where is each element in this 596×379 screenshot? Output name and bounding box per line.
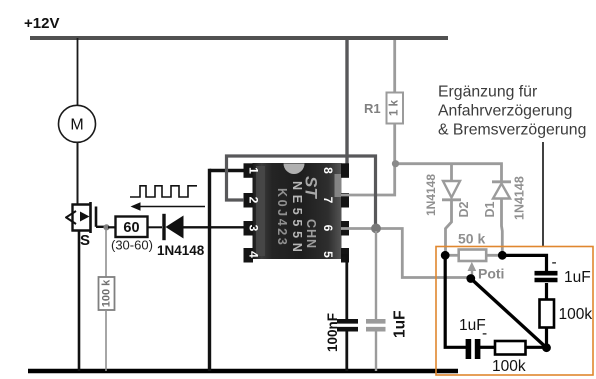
svg-text:100k: 100k bbox=[492, 358, 526, 375]
label (30-60) bbox=[111, 238, 153, 253]
svg-text:6: 6 bbox=[321, 225, 335, 232]
svg-text:60: 60 bbox=[123, 220, 139, 236]
svg-text:M: M bbox=[70, 117, 83, 134]
svg-text:8: 8 bbox=[321, 167, 335, 174]
node junction dot bottom right bbox=[542, 343, 551, 352]
wire junction up to 100k vertical bbox=[545, 328, 548, 348]
pin number 8 bbox=[321, 167, 335, 174]
label 1N4148 for D1 bbox=[513, 176, 527, 220]
pin number 4 bbox=[246, 251, 260, 258]
capacitor 1uF (bottom add-on) bbox=[468, 339, 477, 359]
node poti right dot bbox=[498, 251, 507, 260]
potentiometer wiper arrow bbox=[468, 262, 477, 278]
resistor R1 1k bbox=[387, 93, 404, 124]
node wiper dot bbox=[466, 274, 475, 283]
wire 1uF to ground rail bbox=[375, 332, 377, 372]
svg-text:3: 3 bbox=[246, 225, 260, 232]
svg-text:K0J423: K0J423 bbox=[275, 188, 289, 247]
svg-text:100k: 100k bbox=[559, 306, 593, 323]
diode D2 bbox=[442, 181, 461, 200]
svg-text:D2: D2 bbox=[457, 201, 471, 217]
svg-text:Anfahrverzögerung: Anfahrverzögerung bbox=[438, 103, 572, 120]
wire pin 1 to ground line bbox=[210, 169, 245, 172]
node gate junction dot bbox=[103, 224, 109, 230]
annotation pointer line bbox=[542, 142, 544, 246]
potentiometer 50k body bbox=[445, 250, 502, 262]
label 50 k bbox=[458, 231, 485, 247]
wire R1 bottom to junction bbox=[393, 124, 396, 165]
annotation Ergänzung text bbox=[438, 84, 586, 139]
svg-text:1uF: 1uF bbox=[392, 310, 409, 338]
capacitor 1uF timing bbox=[366, 321, 386, 329]
wire pin 5 to 100nF bbox=[341, 255, 347, 319]
wire gate dot to 60 ohm resistor bbox=[108, 226, 116, 228]
node junction dot R1/pin7/diodes bbox=[392, 160, 399, 167]
wire 100k vertical to 1uF top bbox=[545, 283, 548, 300]
resistor 100 k (gate pulldown) bbox=[99, 277, 115, 310]
capacitor 100nF bbox=[337, 321, 358, 329]
IC U1 NE555N body bbox=[253, 163, 342, 259]
wire ground line vertical bbox=[208, 169, 211, 371]
svg-text:Ergänzung für: Ergänzung für bbox=[438, 84, 537, 101]
label 1uF bottom bbox=[459, 317, 487, 342]
wire 100k to ground rail bbox=[105, 310, 107, 371]
svg-text:2: 2 bbox=[246, 197, 260, 204]
orange add-on box bbox=[436, 247, 593, 376]
square wave symbol bbox=[130, 186, 197, 197]
wire gate dot down to 100k bbox=[105, 229, 107, 277]
pin number 2 bbox=[246, 197, 260, 204]
wire top +12V rail bbox=[30, 36, 448, 40]
svg-text:4: 4 bbox=[246, 251, 260, 258]
resistor 100k vertical bbox=[540, 300, 555, 328]
wire diode rail (junction to D1 top) bbox=[395, 164, 502, 181]
svg-text:100nF: 100nF bbox=[325, 313, 340, 352]
svg-text:Poti: Poti bbox=[478, 266, 504, 282]
transistor Q1 MOSFET bbox=[66, 202, 105, 233]
wire branch to D2 top bbox=[450, 164, 453, 181]
label 100k bottom bbox=[492, 358, 526, 375]
resistor 100k horizontal bbox=[495, 341, 526, 355]
wire D2 to poti left bbox=[446, 201, 452, 256]
arrow pointing left bbox=[131, 202, 206, 211]
wire 100k to junction dot bbox=[526, 346, 547, 349]
svg-text:& Bremsverzögerung: & Bremsverzögerung bbox=[438, 122, 586, 139]
svg-text:(30-60): (30-60) bbox=[111, 238, 153, 253]
motor M1 bbox=[59, 105, 96, 142]
svg-text:CHN: CHN bbox=[304, 219, 318, 249]
IC markings (rotated) bbox=[275, 176, 321, 256]
wire 60 to diode cathode bbox=[148, 226, 163, 228]
wire 1uF top to poti right terminal bbox=[502, 255, 546, 271]
svg-text:-: - bbox=[552, 254, 557, 271]
IC pin stubs bbox=[244, 163, 350, 262]
pin number 7 bbox=[321, 197, 335, 204]
label D2 bbox=[457, 201, 471, 217]
diode D1 bbox=[492, 182, 511, 199]
svg-text:S: S bbox=[80, 232, 90, 249]
wire bottom ground rail bbox=[28, 369, 458, 374]
resistor 60 ohm gate resistor bbox=[116, 217, 148, 238]
wire 100nF to ground rail bbox=[345, 332, 348, 372]
pin number 1 bbox=[246, 167, 260, 174]
wire diode anode to pin 3 bbox=[184, 226, 245, 228]
label S (source) bbox=[80, 232, 90, 249]
svg-text:+12V: +12V bbox=[24, 15, 59, 32]
label R1 bbox=[364, 101, 381, 116]
label 1uF timing (rotated) bbox=[392, 310, 409, 338]
label 1N4148 bbox=[157, 243, 205, 258]
pin number 6 bbox=[321, 225, 335, 232]
capacitor 1uF (top add-on) bbox=[535, 273, 558, 280]
label 1N4148 for D2 bbox=[424, 174, 438, 216]
wire cap to 100k horizontal bbox=[480, 346, 495, 349]
wire rail to motor bbox=[77, 38, 79, 106]
wire pin 6 to wiper bbox=[341, 229, 471, 278]
diode 1N4148 (gate drive) bbox=[164, 214, 184, 240]
wire pin 2 to pin 6 loop bbox=[227, 156, 376, 229]
node pin6 junction big dot bbox=[371, 224, 381, 234]
IC notch bbox=[284, 164, 305, 175]
svg-text:50 k: 50 k bbox=[458, 231, 485, 247]
wire D1 to poti right bbox=[500, 199, 504, 256]
wire R1 top to rail bbox=[393, 40, 396, 93]
wire motor to MOSFET drain bbox=[77, 143, 79, 205]
svg-text:1 k: 1 k bbox=[389, 99, 401, 116]
wire +12V to pin 8 bbox=[340, 40, 347, 171]
label 1uF top right bbox=[552, 254, 591, 286]
svg-text:1uF: 1uF bbox=[564, 269, 591, 286]
svg-text:1: 1 bbox=[246, 167, 260, 174]
svg-text:1N4148: 1N4148 bbox=[513, 176, 527, 220]
svg-text:5: 5 bbox=[321, 251, 335, 258]
wire MOSFET source to ground rail bbox=[78, 231, 81, 372]
svg-text:1N4148: 1N4148 bbox=[157, 243, 205, 258]
svg-text:R1: R1 bbox=[364, 101, 381, 116]
wire pin 7 elbow to junction bbox=[341, 164, 395, 195]
node poti left dot bbox=[441, 251, 450, 260]
svg-text:D1: D1 bbox=[483, 201, 497, 217]
pin number 5 bbox=[321, 251, 335, 258]
svg-text:100 k: 100 k bbox=[100, 279, 112, 307]
wire big dot down to 1uF timing cap bbox=[375, 231, 377, 319]
svg-text:7: 7 bbox=[321, 197, 335, 204]
label 100nF (rotated) bbox=[325, 313, 340, 352]
pin number 3 bbox=[246, 225, 260, 232]
svg-text:-: - bbox=[482, 325, 487, 342]
wire diagonal wiper to junction bbox=[471, 279, 547, 348]
label Poti bbox=[478, 266, 504, 282]
svg-text:NE555N: NE555N bbox=[290, 181, 304, 256]
svg-text:1N4148: 1N4148 bbox=[424, 174, 438, 216]
wire poti left terminal down and to 1uF cap bbox=[445, 256, 466, 348]
node +12V label bbox=[24, 15, 59, 32]
label D1 bbox=[483, 201, 497, 217]
label 100k right bbox=[559, 306, 593, 323]
